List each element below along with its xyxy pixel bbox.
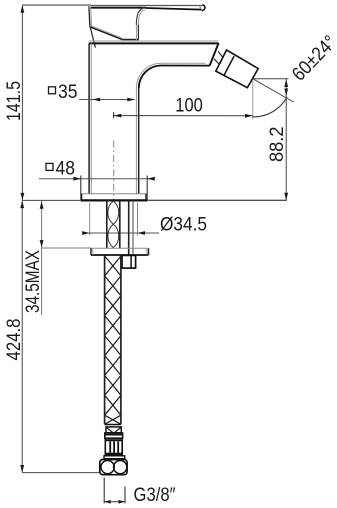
svg-text:48: 48 — [56, 158, 76, 180]
spout tip face — [210, 43, 219, 66]
spray angle lines — [253, 79, 294, 102]
svg-text:100: 100 — [175, 94, 203, 116]
aerator body — [216, 50, 258, 88]
spray angle extension line — [252, 81, 254, 120]
G3/8 nut flange strip — [104, 456, 125, 459]
dim 35 text — [58, 81, 78, 103]
svg-text:Ø34.5: Ø34.5 — [160, 213, 207, 235]
dim 48 ticks — [81, 176, 147, 201]
dim 34.5MAX line — [40, 201, 91, 315]
dim 424.8 text — [3, 319, 25, 361]
dim 88.2 bottom extension — [148, 199, 287, 201]
dim 424.8 line — [20, 200, 100, 472]
svg-text:424.8: 424.8 — [3, 319, 25, 361]
mounting stud — [129, 201, 133, 256]
dim G3/8 line — [104, 500, 125, 504]
centerline — [113, 141, 115, 201]
mounting nut — [122, 255, 136, 268]
handle inner arc — [136, 8, 145, 25]
spout bottom edge — [161, 63, 210, 65]
svg-text:88.2: 88.2 — [266, 127, 288, 163]
dim 100 line — [114, 112, 253, 118]
dim Ø34.5 extension lines — [90, 203, 138, 236]
body left wall — [89, 43, 91, 193]
G3/8 nut body — [100, 460, 127, 475]
spray angle arc — [253, 97, 288, 117]
svg-text:34.5MAX: 34.5MAX — [22, 250, 44, 313]
fitting collar — [105, 433, 123, 438]
dim Ø34.5 line — [82, 231, 159, 235]
dim 100 text — [175, 94, 203, 116]
G3/8 nut circles — [101, 461, 127, 474]
upper braided hose — [107, 201, 120, 249]
svg-text:35: 35 — [58, 81, 78, 103]
dim 34.5MAX text — [22, 250, 44, 313]
dim 35 line — [79, 98, 135, 102]
dim G3/8 ticks — [104, 478, 125, 504]
dim 48 square symbol — [46, 163, 53, 170]
lower braided hose — [105, 255, 121, 424]
dim 48 text — [56, 158, 76, 180]
hose end line — [105, 424, 121, 426]
spout top edge — [89, 41, 219, 43]
svg-text:141.5: 141.5 — [3, 81, 25, 121]
dim 88.2 text — [266, 127, 288, 163]
spout corner arc — [136, 63, 161, 88]
handle wedge line — [90, 27, 95, 47]
dim 141.5 line — [21, 5, 92, 200]
handle lever bar — [91, 5, 205, 11]
svg-text:G3/8″: G3/8″ — [134, 484, 176, 506]
body right wall — [136, 88, 138, 194]
base plate — [22, 194, 286, 201]
dim 48 line — [39, 177, 155, 181]
dim G3/8 text — [134, 484, 176, 506]
fitting crimp box — [106, 427, 121, 433]
aerator connector — [214, 51, 223, 64]
fitting sleeve — [105, 438, 122, 455]
dim 35 square symbol — [49, 87, 56, 94]
handle body — [89, 6, 139, 40]
dim Ø34.5 text — [160, 213, 207, 235]
mounting washer — [91, 248, 149, 255]
dim 88.2 line — [284, 79, 288, 200]
dim 60±24° text — [288, 31, 337, 85]
dim 141.5 text — [3, 81, 25, 121]
